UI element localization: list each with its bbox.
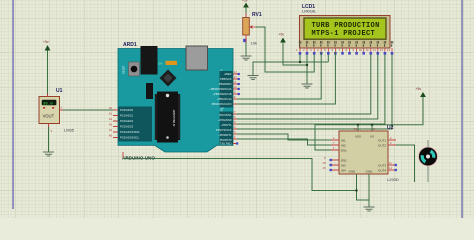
- svg-text:AREF: AREF: [224, 72, 232, 76]
- wire U2 OUT2 down right: [396, 145, 415, 182]
- svg-text:ARD1: ARD1: [123, 42, 137, 48]
- svg-text:TURB PRODUCTION: TURB PRODUCTION: [312, 22, 380, 30]
- sheet border right: [461, 0, 463, 218]
- svg-text:PD4/T0/XCK: PD4/T0/XCK: [216, 128, 232, 132]
- svg-text:VOUT: VOUT: [43, 114, 55, 119]
- svg-text:PC2/ADC2: PC2/ADC2: [120, 119, 134, 123]
- arduino U-board ARD1: [118, 42, 233, 161]
- svg-text:TXD RXD: TXD RXD: [220, 141, 232, 145]
- svg-text:PB5/SCK: PB5/SCK: [220, 77, 232, 81]
- svg-text:A5: A5: [109, 134, 113, 138]
- svg-text:PB4/MISO: PB4/MISO: [219, 82, 232, 86]
- ARD1 MCU ATMEGA328P: [155, 92, 180, 143]
- wire ARD1 to LCD E: [237, 52, 335, 104]
- svg-text:PD2/INT0: PD2/INT0: [220, 138, 232, 142]
- wire ARD1 GND to U2 GND net: [123, 159, 357, 191]
- wire rail tap U2 VSS: [357, 125, 359, 131]
- wire ARD1 PD2 to U2 IN2: [237, 139, 331, 145]
- wire +5V to LCD VDD: [283, 43, 307, 66]
- svg-text:IN4: IN4: [341, 169, 346, 173]
- power +5V (RV1): [242, 0, 249, 8]
- node junction LCD VDD: [306, 64, 308, 66]
- svg-text:PD7/AIN1: PD7/AIN1: [220, 113, 232, 117]
- ARD1 analog pin strip: [118, 107, 152, 142]
- LCD pin stubs 1-14: [300, 48, 392, 52]
- motor terminal stubs: [427, 140, 429, 182]
- wire ARD1 PD3 to U2 IN1: [237, 134, 331, 140]
- svg-text:A1: A1: [109, 112, 113, 116]
- svg-text:+5v: +5v: [416, 87, 422, 91]
- ARD1 analog pin stubs A0-A5: [113, 110, 118, 138]
- display LCD1 LM016L: [299, 4, 393, 48]
- svg-text:PC1/ADC1: PC1/ADC1: [120, 114, 134, 118]
- svg-text:VSS: VSS: [355, 135, 361, 139]
- sensor U1 (LM35): [39, 88, 75, 133]
- svg-text:OUT3: OUT3: [378, 164, 386, 168]
- svg-text:A0: A0: [109, 106, 113, 110]
- ARD1 inductor diamond: [160, 70, 177, 87]
- node junction GND net: [355, 189, 357, 191]
- svg-text:LM35: LM35: [64, 128, 75, 133]
- svg-text:A4: A4: [109, 128, 113, 132]
- svg-text:PC5/ADC5/SCL: PC5/ADC5/SCL: [120, 136, 140, 140]
- ARD1 USB connector: [186, 46, 208, 70]
- svg-text:~PD3/INT1: ~PD3/INT1: [218, 133, 232, 137]
- svg-text:~PB1/OC1A: ~PB1/OC1A: [217, 97, 232, 101]
- ARD1 right pin stubs upper: [233, 71, 240, 104]
- ground (U2): [364, 207, 375, 211]
- svg-text:VS: VS: [370, 135, 374, 139]
- power +5V (LCD VDD): [279, 33, 286, 43]
- power +5V (U2): [416, 87, 426, 97]
- svg-text:L293D: L293D: [387, 177, 399, 182]
- wire ARD1 PD7 to LCD D4: [237, 55, 371, 115]
- wire ARD1 PD4 to LCD D7: [237, 55, 392, 130]
- svg-text:EN1: EN1: [341, 149, 347, 153]
- wire LCD VDD down: [306, 52, 308, 84]
- wire +5V rail to U2 VS VSS EN1: [315, 97, 423, 150]
- svg-text:~PD6/AIN0: ~PD6/AIN0: [218, 118, 232, 122]
- svg-text:U2: U2: [387, 125, 394, 131]
- svg-text:U1: U1: [56, 88, 63, 94]
- svg-text:IN2: IN2: [341, 144, 346, 148]
- svg-text:OUT2: OUT2: [378, 144, 386, 148]
- wire RV1 bottom to ground: [245, 42, 247, 56]
- node junction VSS: [299, 61, 301, 63]
- ground (left of LCD): [248, 76, 259, 80]
- svg-text:ATMEGA328P: ATMEGA328P: [172, 109, 176, 126]
- svg-text:36.0: 36.0: [43, 102, 53, 106]
- svg-text:+5v: +5v: [43, 40, 49, 44]
- node junction VS rail: [371, 124, 373, 126]
- wire LCD VSS / RW to ground: [253, 52, 328, 75]
- svg-text:PC4/ADC4/SDA: PC4/ADC4/SDA: [120, 130, 140, 134]
- svg-text:LM016L: LM016L: [302, 9, 317, 14]
- svg-text:EN2: EN2: [341, 159, 347, 163]
- ARD1 digital pin strip lower: [220, 112, 234, 145]
- svg-text:OUT4: OUT4: [378, 169, 386, 173]
- wire +5V to RV1 top: [245, 8, 247, 18]
- wire ARD1 pin8 to LCD RS: [237, 52, 321, 99]
- wire U1 VOUT to ARD1 A0: [63, 109, 113, 111]
- ground (U1): [43, 152, 54, 156]
- wire ARD1 PD6 to LCD D5: [237, 55, 378, 120]
- svg-text:+5v: +5v: [242, 0, 248, 3]
- wire RV1 wiper to LCD VEE: [256, 27, 314, 72]
- svg-text:A2: A2: [109, 117, 113, 121]
- wire ARD1 PD5 to LCD D6: [237, 55, 385, 125]
- svg-text:+5v: +5v: [279, 33, 285, 37]
- driver U2 (L293D): [323, 125, 399, 182]
- motor: [419, 147, 438, 166]
- svg-text:~PB2/SS/OC1B: ~PB2/SS/OC1B: [212, 92, 231, 96]
- power +5V (U1): [43, 40, 50, 51]
- svg-text:PC3/ADC3: PC3/ADC3: [120, 125, 134, 129]
- svg-text:IN3: IN3: [341, 164, 346, 168]
- svg-text:GND: GND: [366, 170, 374, 174]
- svg-text:~PD5/T1: ~PD5/T1: [221, 123, 232, 127]
- ARD1 right pin stubs lower: [233, 111, 238, 145]
- svg-text:OUT1: OUT1: [378, 139, 386, 143]
- ground (RV1): [241, 56, 252, 60]
- ARD1 bottom gnd stub: [122, 152, 124, 159]
- svg-text:ON: ON: [158, 62, 163, 66]
- ground (LCD): [302, 84, 313, 88]
- svg-text:MTPS-1 PROJECT: MTPS-1 PROJECT: [312, 30, 376, 38]
- ARD1 digital pin strip upper: [220, 71, 234, 108]
- ARD1 barrel jack: [141, 46, 158, 75]
- svg-text:PB0/ICP1/CLKO: PB0/ICP1/CLKO: [212, 102, 232, 106]
- svg-text:RV1: RV1: [252, 12, 262, 18]
- svg-text:10k: 10k: [251, 41, 257, 46]
- wire U2 GND pins to ground: [357, 174, 370, 207]
- svg-text:PC0/ADC0: PC0/ADC0: [120, 108, 134, 112]
- svg-text:~PB3/MOSI/OC2A: ~PB3/MOSI/OC2A: [209, 87, 232, 91]
- wire +5V to U1 VCC: [47, 51, 49, 97]
- svg-text:A3: A3: [109, 123, 113, 127]
- sheet border left: [12, 0, 14, 209]
- potentiometer RV1: [243, 12, 262, 46]
- wire U1 GND down: [48, 127, 50, 152]
- svg-text:GND: GND: [349, 170, 357, 174]
- ARD1 regulator: [146, 83, 153, 99]
- svg-text:IN1: IN1: [341, 139, 346, 143]
- wire rail tap U2 VS: [371, 125, 373, 131]
- svg-text:RESET: RESET: [122, 65, 126, 74]
- node junction VSS rail: [357, 124, 359, 126]
- ARD1 reset button: [129, 62, 140, 76]
